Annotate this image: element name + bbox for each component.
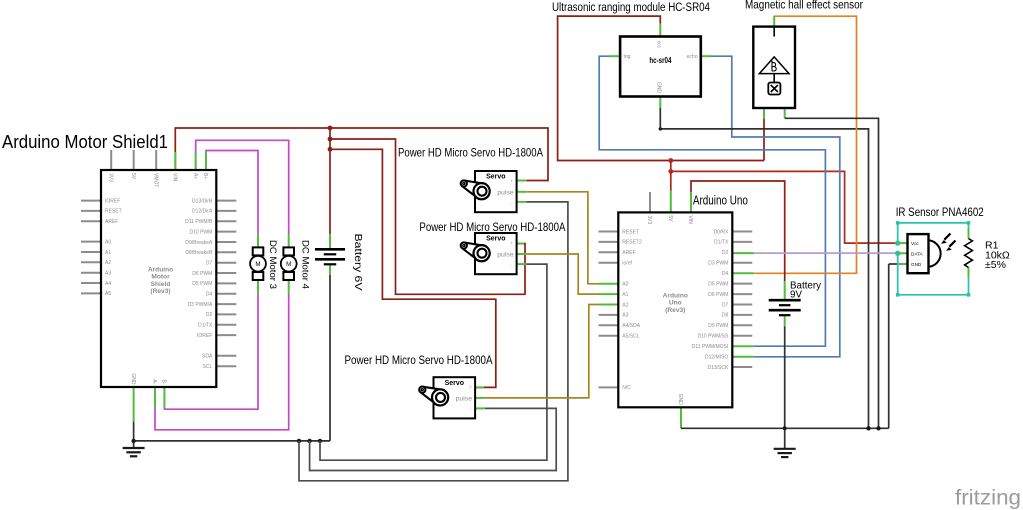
servo U1 body	[475, 171, 517, 212]
servo U3 horn	[421, 387, 443, 405]
green stubs hall bottom pins	[763, 108, 765, 118]
svg-text:D4: D4	[206, 292, 213, 298]
green stubs servo2 pins	[517, 243, 524, 245]
svg-text:A1: A1	[105, 250, 111, 256]
wire battery 9V positive to VIN	[691, 181, 785, 281]
dc motor M4 symbol	[283, 247, 294, 255]
wire hc-sr04 echo to D12	[711, 56, 840, 357]
svg-text:A5: A5	[105, 291, 111, 297]
svg-text:echo: echo	[687, 54, 698, 60]
svg-text:D8: D8	[722, 313, 729, 319]
wire hall out to D4 orange	[754, 16, 857, 273]
wire servo3 pulse to A2	[485, 305, 599, 398]
svg-text:AREF: AREF	[105, 219, 118, 225]
wire hc-sr04 trig to D11	[599, 56, 825, 346]
svg-text:Magnetic hall effect sensor: Magnetic hall effect sensor	[745, 0, 863, 12]
wire 5V to IR Vcc	[671, 171, 898, 243]
svg-text:+: +	[469, 385, 472, 390]
svg-text:(Rev3): (Rev3)	[150, 288, 170, 295]
shield rect	[101, 170, 216, 387]
svg-text:D9/BreakeA: D9/BreakeA	[185, 240, 213, 246]
svg-text:M: M	[255, 261, 260, 268]
wire servo1 ground loop	[299, 202, 568, 481]
junction dots ground bus right	[866, 426, 870, 430]
wire shield B+ to motor3 top	[206, 151, 258, 235]
wire battery 9V negative	[784, 316, 786, 327]
svg-text:Power HD Micro Servo HD-1800A: Power HD Micro Servo HD-1800A	[345, 353, 493, 367]
svg-text:DC Motor 3: DC Motor 3	[268, 240, 278, 289]
svg-text:A-: A-	[151, 380, 157, 385]
svg-text:D6 PWM: D6 PWM	[192, 271, 212, 277]
junction dots +6V bus	[328, 126, 333, 131]
svg-text:D8/BreakeB: D8/BreakeB	[185, 250, 213, 256]
svg-text:B+: B+	[202, 173, 208, 179]
svg-text:A3: A3	[105, 271, 111, 277]
shield right pin stubs	[216, 200, 236, 202]
green stubs resistor R1	[968, 228, 970, 239]
wire battery 6V negative	[329, 275, 331, 441]
servo U2 horn	[463, 243, 485, 261]
svg-text:GND: GND	[677, 394, 683, 406]
svg-text:VIN: VIN	[687, 215, 693, 224]
svg-text:D3 PWM/A: D3 PWM/A	[188, 302, 213, 308]
servo U2 body	[475, 233, 517, 274]
svg-text:D10 PWM: D10 PWM	[190, 229, 213, 235]
svg-text:Arduino: Arduino	[663, 293, 688, 300]
green stubs motor4	[288, 234, 290, 248]
svg-text:Battery 6V: Battery 6V	[352, 234, 364, 291]
svg-text:IR Sensor PNA4602: IR Sensor PNA4602	[896, 205, 984, 219]
wire battery 6V positive	[329, 128, 331, 234]
svg-text:D1/TX: D1/TX	[198, 323, 213, 329]
svg-text:DC Motor 4: DC Motor 4	[301, 240, 311, 289]
green stubs hc-sr04 trig echo	[609, 55, 620, 57]
svg-text:D7: D7	[206, 261, 213, 267]
wire hall vcc drop	[763, 118, 765, 160]
battery 9V symbol	[769, 299, 801, 302]
svg-text:vcc: vcc	[656, 41, 662, 49]
junction dots 5V	[668, 158, 673, 163]
svg-text:D13/DirB: D13/DirB	[192, 198, 213, 204]
svg-text:Servo: Servo	[445, 380, 464, 387]
svg-text:A2: A2	[622, 302, 628, 308]
svg-text:VIN: VIN	[172, 173, 178, 182]
hall sensor B glyph	[772, 61, 776, 71]
servo U1 horn	[463, 181, 485, 199]
dc motor M3 symbol	[253, 247, 264, 255]
shield left pin stubs	[81, 200, 101, 202]
wire shield A+ to motor4 top	[196, 140, 289, 234]
svg-text:A0: A0	[622, 281, 628, 287]
green stub hc-sr04 vcc	[659, 24, 661, 37]
wire shield A- to motor4 bottom	[155, 294, 289, 430]
wire servo3 ground loop	[310, 408, 557, 470]
svg-text:D10 PWM/SS: D10 PWM/SS	[697, 334, 729, 340]
svg-text:SCL: SCL	[203, 364, 213, 370]
wire shield GND down	[133, 387, 135, 422]
svg-text:D9 PWM: D9 PWM	[708, 323, 728, 329]
svg-text:Ultrasonic ranging module HC-S: Ultrasonic ranging module HC-SR04	[552, 0, 710, 14]
svg-text:Servo: Servo	[486, 174, 505, 181]
ir sensor body	[908, 234, 929, 273]
green stub battery 9V top	[784, 281, 786, 300]
wire +6V bus2 to servo2	[330, 139, 525, 294]
svg-text:+: +	[510, 240, 513, 245]
svg-text:Motor: Motor	[151, 274, 170, 281]
svg-text:D2: D2	[206, 312, 213, 318]
wire IR gnd up	[888, 264, 890, 428]
hall sensor body	[753, 27, 795, 108]
svg-text:GND: GND	[656, 82, 662, 94]
svg-text:DATA: DATA	[911, 251, 924, 256]
svg-text:pulse: pulse	[497, 251, 513, 258]
svg-text:A4: A4	[105, 281, 111, 287]
hall sensor stem and x-box	[773, 74, 775, 83]
svg-text:A+: A+	[192, 173, 198, 179]
hc-sr04 body	[620, 37, 701, 97]
svg-text:D0/RX: D0/RX	[714, 229, 729, 235]
wire shield B- to motor3 bottom	[164, 294, 258, 409]
green stubs arduino D11 D12	[732, 345, 754, 347]
svg-text:D5 PWM: D5 PWM	[192, 281, 212, 287]
svg-text:IOREF: IOREF	[105, 198, 120, 204]
svg-text:A4/SDA: A4/SDA	[622, 323, 640, 329]
svg-text:A0: A0	[105, 239, 111, 245]
green stub IR Vcc	[898, 242, 908, 244]
svg-text:Servo: Servo	[486, 236, 505, 243]
svg-text:D1/TX: D1/TX	[714, 240, 729, 246]
svg-text:(Rev3): (Rev3)	[665, 307, 685, 314]
green stub arduino D4	[732, 272, 754, 274]
svg-text:±5%: ±5%	[985, 259, 1006, 271]
green stub arduino VIN	[690, 192, 692, 212]
green stub battery 6V top	[329, 234, 331, 250]
green stub arduino 5V	[670, 191, 672, 213]
svg-text:D12/DirA: D12/DirA	[192, 209, 213, 215]
svg-text:AREF: AREF	[622, 250, 635, 256]
svg-text:5V: 5V	[667, 215, 673, 222]
green stubs servo1 pins	[517, 180, 527, 182]
svg-text:pulse: pulse	[497, 189, 513, 196]
resistor R1 zigzag	[965, 239, 973, 268]
svg-text:Power HD Micro Servo HD-1800A: Power HD Micro Servo HD-1800A	[398, 145, 543, 159]
green stub hall top	[773, 16, 775, 27]
green stub B-	[163, 387, 165, 407]
wire hc-sr04 vcc to 5V net	[558, 16, 764, 160]
green stub IR DATA	[898, 252, 908, 254]
svg-text:3V3: 3V3	[107, 173, 113, 182]
wire +6V bus3 to servo3	[330, 149, 496, 387]
green stub arduino D2	[732, 252, 754, 254]
teal bendpoint squares	[896, 221, 900, 225]
wire arduino GND ground bus	[680, 407, 682, 428]
wire ground bus left	[134, 440, 330, 442]
arduino uno rect	[618, 212, 732, 407]
hall sensor top pin inner	[773, 27, 775, 37]
svg-text:Uno: Uno	[669, 300, 682, 307]
green stub B+	[205, 152, 207, 170]
svg-text:D6 PWM: D6 PWM	[708, 292, 728, 298]
svg-text:VMOT: VMOT	[152, 173, 158, 187]
svg-text:3V3: 3V3	[646, 215, 652, 224]
svg-text:D5 PWM: D5 PWM	[708, 281, 728, 287]
ground symbol battery 9V	[774, 448, 796, 450]
svg-text:D3 PWM: D3 PWM	[708, 261, 728, 267]
svg-text:Arduino: Arduino	[148, 267, 173, 274]
wire 5V pin up	[670, 161, 672, 191]
svg-text:D11 PWM/B: D11 PWM/B	[185, 219, 213, 225]
arduino uno left pin stubs	[599, 231, 619, 233]
svg-text:fritzing: fritzing	[955, 487, 1021, 510]
svg-text:N/C: N/C	[622, 385, 631, 391]
svg-text:hc-sr04: hc-sr04	[649, 56, 672, 65]
svg-text:A5/SCL: A5/SCL	[622, 334, 639, 340]
wire teal pullup loop R1	[898, 223, 969, 243]
svg-text:IOREF: IOREF	[197, 333, 212, 339]
svg-text:RESET: RESET	[622, 229, 639, 235]
shield top pin stubs 3V3 5V VMOT	[110, 150, 112, 170]
svg-text:pulse: pulse	[456, 396, 472, 403]
green stub A-	[154, 387, 156, 407]
green stubs motor3	[257, 234, 259, 248]
svg-text:SDA: SDA	[202, 354, 213, 360]
wire servo2 ground loop	[320, 264, 547, 460]
svg-text:D12/MISO: D12/MISO	[705, 355, 728, 361]
servo U3 body	[434, 377, 476, 418]
green stub VIN shield	[174, 152, 176, 170]
hall sensor triangle	[759, 57, 789, 74]
svg-text:RESET2: RESET2	[622, 240, 642, 246]
svg-text:D2: D2	[722, 250, 729, 256]
svg-text:Shield: Shield	[151, 281, 171, 288]
wire +6V bus1 VIN-shield to servo1	[175, 128, 548, 181]
svg-text:+: +	[510, 178, 513, 183]
green stubs arduino A0 A1 A2	[599, 283, 619, 285]
wire D2 to IR DATA lavender	[754, 252, 898, 254]
arduino uno right pin stubs	[732, 231, 752, 233]
svg-text:M: M	[286, 261, 291, 268]
green stubs servo3 pins	[475, 386, 484, 388]
svg-text:A2: A2	[105, 260, 111, 266]
svg-text:D13/SCK: D13/SCK	[707, 365, 729, 371]
svg-text:Arduino Motor Shield1: Arduino Motor Shield1	[2, 131, 168, 152]
wire hall gnd to ground bus	[785, 118, 879, 428]
arduino uno top stub 3V3	[649, 192, 651, 212]
svg-text:ioref: ioref	[622, 261, 632, 267]
junction dots ground bus left	[131, 439, 135, 443]
svg-text:Vcc: Vcc	[911, 241, 919, 246]
svg-text:A1: A1	[622, 292, 628, 298]
green stub A+	[195, 152, 197, 170]
svg-text:9V: 9V	[790, 290, 802, 301]
ir sensor arrows	[944, 234, 955, 247]
svg-text:D4: D4	[722, 271, 729, 277]
teal junction dots IR Vcc DATA	[895, 240, 900, 245]
wire hc-sr04 gnd to ground bus	[659, 97, 661, 108]
svg-text:B-: B-	[161, 380, 167, 385]
wire servo1 pulse to A0	[526, 192, 598, 284]
svg-text:Arduino Uno: Arduino Uno	[693, 194, 748, 208]
svg-text:GND: GND	[911, 262, 922, 267]
svg-text:RESET: RESET	[105, 209, 122, 215]
svg-text:A3: A3	[622, 313, 628, 319]
svg-text:GND: GND	[130, 373, 136, 385]
ir sensor dome	[929, 240, 941, 266]
ground symbol left	[123, 447, 145, 449]
battery 6V symbol	[315, 248, 345, 251]
svg-text:5V: 5V	[130, 173, 136, 180]
svg-text:D7: D7	[722, 302, 729, 308]
wire servo2 pulse to A1	[526, 254, 598, 294]
svg-text:D11 PWM/MOSI: D11 PWM/MOSI	[692, 344, 729, 350]
svg-text:trig: trig	[624, 54, 631, 60]
